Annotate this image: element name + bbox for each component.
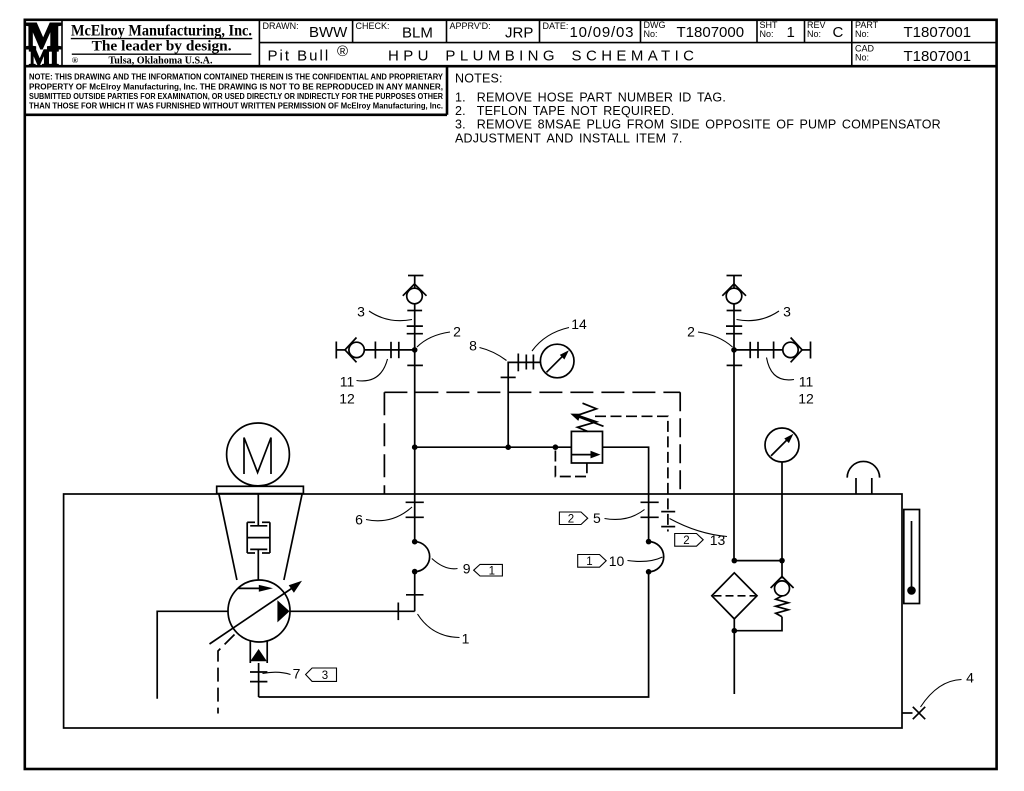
variable displacement pump P1	[228, 580, 290, 642]
pump rotation arrow	[239, 587, 262, 589]
svg-text:4: 4	[966, 670, 974, 686]
hose loop item 9	[415, 542, 430, 572]
check valve CV4 items 11 12 right	[783, 342, 798, 357]
svg-text:DATE:: DATE:	[543, 21, 569, 31]
svg-text:DRAWN:: DRAWN:	[263, 21, 299, 31]
svg-text:1: 1	[586, 556, 592, 568]
svg-text:1: 1	[462, 631, 470, 647]
label 5 flag 2	[559, 512, 587, 525]
suction run along tank bottom	[259, 572, 649, 697]
bell housing	[219, 494, 237, 580]
svg-text:11: 11	[799, 374, 814, 390]
gauge stem	[781, 462, 783, 561]
pilot fitting ticks	[661, 511, 675, 513]
pressure gauge G1 item 14	[540, 344, 574, 378]
right riser top	[733, 276, 735, 289]
svg-text:JRP: JRP	[505, 25, 533, 42]
svg-text:2: 2	[568, 513, 574, 525]
node	[412, 569, 418, 575]
svg-text:3: 3	[322, 670, 328, 682]
svg-text:PROPERTY OF McElroy Manufactur: PROPERTY OF McElroy Manufacturing, Inc. …	[29, 81, 443, 91]
svg-text:11: 11	[340, 374, 355, 390]
breather B1	[847, 461, 879, 477]
return gauge G2	[765, 428, 799, 462]
bypass return	[734, 617, 782, 631]
relief spring	[578, 403, 597, 431]
svg-text:8: 8	[469, 338, 477, 354]
right riser	[733, 304, 735, 561]
relief outlet line	[603, 447, 649, 541]
svg-text:®: ®	[72, 55, 79, 65]
svg-text:No:: No:	[760, 29, 774, 39]
svg-text:No:: No:	[807, 29, 821, 39]
svg-text:BLM: BLM	[402, 25, 433, 42]
node B junction	[731, 347, 737, 353]
svg-text:T1807001: T1807001	[904, 48, 972, 65]
svg-text:2: 2	[683, 535, 689, 547]
filter suction drop	[733, 619, 735, 694]
svg-text:12: 12	[798, 391, 814, 407]
svg-text:SUBMITTED OUTSIDE PARTIES FOR: SUBMITTED OUTSIDE PARTIES FOR EXAMINATIO…	[29, 91, 444, 101]
left branch line	[336, 349, 345, 351]
svg-text:9: 9	[463, 561, 471, 577]
motor mount plate	[217, 486, 304, 493]
svg-text:1. REMOVE HOSE PART NUMBER ID: 1. REMOVE HOSE PART NUMBER ID TAG.	[455, 91, 726, 105]
check valve CV1 item 3 left	[414, 276, 416, 289]
node	[412, 444, 418, 450]
svg-text:ADJUSTMENT AND INSTALL ITEM 7.: ADJUSTMENT AND INSTALL ITEM 7.	[455, 132, 683, 146]
suction filter F1	[712, 573, 757, 619]
compensator arrow	[578, 417, 604, 427]
svg-text:3: 3	[357, 304, 365, 320]
compensator pilot dashed	[218, 635, 235, 714]
svg-text:T1807001: T1807001	[904, 24, 972, 41]
node	[412, 539, 418, 545]
main riser	[414, 304, 416, 542]
fitting ticks	[398, 342, 400, 358]
svg-text:10: 10	[609, 553, 625, 569]
manifold dashed envelope	[384, 391, 680, 393]
svg-text:BWW: BWW	[309, 24, 348, 41]
svg-text:2: 2	[453, 324, 461, 340]
fitting tick on outlet	[397, 603, 399, 621]
svg-text:The leader by design.: The leader by design.	[92, 39, 232, 55]
pump variable arrow	[210, 587, 295, 645]
manifold header line	[415, 446, 572, 448]
fitting tick	[406, 594, 424, 596]
shaft coupling	[247, 522, 270, 553]
fitting ticks on riser	[407, 310, 422, 312]
node	[505, 444, 511, 450]
svg-text:MI: MI	[29, 45, 59, 70]
svg-text:5: 5	[593, 510, 601, 526]
svg-text:Tulsa, Oklahoma U.S.A.: Tulsa, Oklahoma U.S.A.	[109, 55, 213, 66]
pump suction port	[249, 641, 251, 663]
node	[732, 558, 738, 564]
pilot line dashed	[595, 416, 668, 531]
svg-text:THAN THOSE FOR WHICH IT WAS FU: THAN THOSE FOR WHICH IT WAS FURNISHED WI…	[29, 101, 443, 111]
right branch line	[734, 349, 783, 351]
fitting ticks on suction	[250, 671, 267, 673]
label 13 flag 2	[675, 534, 704, 547]
drain valve item 4	[902, 712, 913, 714]
svg-text:7: 7	[293, 666, 301, 682]
relief drain dashed	[555, 451, 587, 477]
svg-text:No:: No:	[644, 29, 658, 39]
filter connector	[734, 560, 782, 562]
svg-text:3. REMOVE 8MSAE PLUG FROM SID: 3. REMOVE 8MSAE PLUG FROM SIDE OPPOSITE …	[455, 118, 941, 132]
fitting ticks on return drop	[641, 501, 659, 503]
svg-text:6: 6	[355, 512, 363, 528]
svg-text:APPRV'D:: APPRV'D:	[450, 21, 491, 31]
svg-text:10/09/03: 10/09/03	[570, 24, 635, 41]
electric motor M1	[227, 423, 290, 486]
svg-text:McElroy Manufacturing, Inc.: McElroy Manufacturing, Inc.	[71, 22, 252, 39]
node	[646, 539, 652, 545]
reservoir tank	[64, 494, 902, 728]
svg-text:1: 1	[489, 566, 495, 578]
fitting ticks on right riser	[727, 310, 742, 312]
pump outlet line right	[290, 610, 415, 612]
svg-text:3: 3	[783, 304, 791, 320]
check valve CV3 item 3 right	[726, 288, 742, 304]
check valve CV2 items 11 12 left	[349, 342, 364, 357]
suction line down	[258, 663, 260, 697]
gauge branch riser	[508, 362, 540, 447]
svg-text:CHECK:: CHECK:	[356, 21, 390, 31]
filter bypass check valve CV5	[781, 561, 783, 579]
svg-text:T1807000: T1807000	[677, 24, 745, 41]
svg-text:14: 14	[571, 316, 587, 332]
sight level gauge LG1	[904, 510, 920, 604]
title block outline	[25, 65, 997, 68]
label 10 flag 1	[578, 555, 607, 568]
svg-text:®: ®	[337, 43, 348, 60]
main riser lower segment	[414, 572, 416, 612]
fitting ticks	[749, 342, 751, 358]
node	[646, 569, 652, 575]
case drain line left	[157, 611, 228, 699]
node	[732, 628, 738, 634]
svg-text:Pit Bull: Pit Bull	[268, 48, 331, 65]
svg-text:C: C	[833, 24, 844, 41]
fitting tick	[501, 376, 516, 378]
svg-text:2. TEFLON TAPE NOT REQUIRED.: 2. TEFLON TAPE NOT REQUIRED.	[455, 104, 674, 118]
bypass spring	[776, 596, 789, 617]
svg-text:NOTE: THIS DRAWING AND THE INF: NOTE: THIS DRAWING AND THE INFORMATION C…	[29, 72, 443, 82]
svg-text:12: 12	[339, 391, 355, 407]
svg-text:No:: No:	[855, 52, 869, 62]
svg-text:NOTES:: NOTES:	[455, 72, 503, 86]
note box	[446, 66, 449, 115]
svg-text:HPU PLUMBING SCHEMATIC: HPU PLUMBING SCHEMATIC	[388, 48, 698, 65]
pump shaft	[257, 549, 259, 580]
relief valve RV1	[571, 431, 602, 463]
fitting ticks on gauge branch	[517, 354, 519, 372]
motor shaft	[257, 494, 259, 526]
node A junction	[412, 347, 418, 353]
svg-text:2: 2	[687, 324, 695, 340]
hose loop item 10	[649, 542, 664, 572]
svg-text:No:: No:	[855, 29, 869, 39]
svg-text:1: 1	[787, 24, 795, 41]
pump outlet port	[277, 600, 289, 622]
node	[553, 444, 559, 450]
node	[779, 558, 785, 564]
